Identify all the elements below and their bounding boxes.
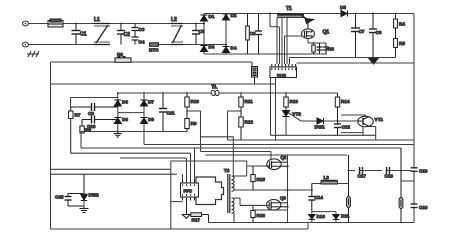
svg-text:Q1: Q1 — [323, 30, 330, 36]
diode D3 — [201, 46, 208, 52]
svg-text:C2: C2 — [124, 32, 131, 38]
svg-text:C16: C16 — [419, 205, 428, 210]
diode D2 — [223, 14, 230, 20]
resistor R17 — [187, 213, 209, 223]
svg-text:R10: R10 — [191, 99, 200, 104]
PWM controller IC1 — [270, 64, 297, 78]
lamp filament 1 — [347, 155, 351, 223]
resistor R4 — [394, 14, 398, 58]
wire IC2 pin2 drop — [186, 158, 188, 183]
Q1 gate wire — [285, 35, 303, 37]
zener DW2 — [81, 194, 87, 206]
wire (C17/C18 row) — [349, 170, 415, 172]
resistor R10 — [185, 93, 189, 119]
resistor R16 — [251, 205, 255, 222]
transformer T2 core — [228, 174, 230, 213]
band wire y136.8 — [201, 136, 234, 138]
inductor L3 — [321, 180, 338, 184]
bottom DC bus — [204, 53, 327, 55]
VT1 wires — [338, 115, 376, 140]
half-bridge rail — [287, 155, 289, 223]
top DC bus — [204, 13, 414, 15]
T2 secondary 2 — [232, 198, 235, 213]
svg-text:3842: 3842 — [277, 73, 287, 78]
diode D1 — [201, 15, 208, 21]
svg-text:C9: C9 — [88, 111, 94, 116]
band wire y151.5 — [201, 151, 272, 153]
svg-text:C3: C3 — [139, 27, 145, 32]
resistor R11 — [239, 93, 243, 117]
MOSFET Q2 — [266, 159, 288, 170]
inner box wire — [71, 98, 118, 108]
diode D7 — [141, 100, 148, 106]
svg-text:NTC: NTC — [149, 48, 159, 53]
resistor R14 — [335, 93, 339, 124]
svg-text:R11: R11 — [245, 99, 254, 104]
svg-text:R3: R3 — [328, 47, 334, 52]
wire (R11/R12 tap) — [228, 111, 242, 140]
wire IC2 pin3 drop — [190, 153, 192, 183]
band wire y135.3 — [271, 134, 376, 136]
svg-text:L3: L3 — [324, 175, 330, 180]
resistor R6 — [115, 57, 131, 63]
left frame wire — [50, 62, 52, 229]
svg-text:C14: C14 — [315, 195, 324, 200]
band wire y158 — [120, 157, 187, 159]
svg-text:C6: C6 — [250, 31, 256, 36]
wire — [63, 23, 94, 25]
svg-text:R4: R4 — [399, 22, 405, 27]
svg-text:DW1: DW1 — [315, 125, 326, 130]
svg-text:Q2: Q2 — [281, 155, 287, 160]
svg-text:DW2: DW2 — [89, 193, 100, 198]
bus y131.5 — [81, 131, 187, 133]
bridge rectifier right leg — [225, 14, 227, 55]
chassis ground — [27, 51, 39, 57]
capacitor C7 — [351, 14, 360, 58]
capacitor (snubber) — [317, 43, 323, 54]
transistor VT1 — [358, 116, 374, 126]
capacitor C1 — [72, 24, 81, 45]
capacitor C12 — [334, 124, 341, 135]
transformer T1 — [277, 15, 304, 17]
capacitor C8 — [369, 14, 377, 58]
capacitor C9 — [71, 103, 118, 111]
capacitor C6 — [255, 14, 262, 55]
svg-text:C15: C15 — [55, 195, 64, 200]
wire (L3 to lamp1) — [338, 183, 349, 185]
capacitor C18 — [382, 167, 390, 174]
ground (IC2) — [182, 201, 192, 219]
svg-text:L1: L1 — [94, 17, 100, 23]
svg-text:C13: C13 — [419, 169, 428, 174]
driver IC2 (PFC) — [181, 180, 199, 201]
resistor R3 — [323, 43, 331, 54]
resistor R5 — [394, 39, 398, 48]
ground (diode block) — [114, 132, 122, 138]
wire (IC1 pin drops) — [271, 78, 276, 141]
svg-text:D6: D6 — [122, 100, 128, 105]
wire — [183, 44, 226, 46]
capacitor C16 — [411, 204, 418, 208]
wire y62 with R6 — [51, 61, 253, 63]
svg-text:C8: C8 — [376, 30, 382, 35]
svg-text:T2: T2 — [224, 168, 230, 173]
capacitor C13 — [411, 168, 418, 172]
diode column right — [143, 93, 145, 145]
capacitor C3 — [132, 24, 139, 37]
diode D10 — [309, 212, 315, 223]
ground (DW2) — [80, 206, 89, 213]
lamp filament 2 — [399, 148, 403, 223]
bottom frame wire — [51, 228, 309, 230]
svg-text:R7: R7 — [75, 113, 81, 118]
resistor R12 — [239, 117, 243, 140]
svg-text:R17: R17 — [192, 218, 201, 223]
svg-text:R5: R5 — [399, 41, 405, 46]
svg-text:C1: C1 — [80, 32, 87, 38]
svg-text:R8: R8 — [191, 121, 197, 126]
svg-text:L2: L2 — [171, 17, 177, 23]
svg-text:D3: D3 — [209, 45, 215, 50]
wire Q2 drain drop — [270, 152, 272, 160]
band wire y153.2 — [71, 152, 191, 154]
svg-text:C12: C12 — [342, 125, 351, 130]
wire (lamp2 to frame) — [401, 180, 414, 182]
wire VT2 to DW1 — [286, 113, 317, 136]
svg-text:VT1: VT1 — [375, 117, 384, 122]
svg-text:T1: T1 — [286, 6, 292, 12]
right frame wire — [413, 14, 415, 223]
svg-text:C11: C11 — [167, 111, 176, 116]
resistor R1 — [246, 14, 250, 55]
terminal L — [23, 21, 49, 26]
band wire y144.5 — [144, 144, 414, 146]
T1 polarity arrow — [301, 15, 314, 24]
lower box wires — [51, 161, 247, 229]
wire (diode mid row) — [118, 112, 144, 114]
fuse FU — [48, 19, 63, 27]
zener DW1 — [317, 118, 338, 124]
wire (sec row to L3) — [312, 183, 321, 185]
capacitor C4 — [132, 37, 139, 45]
diode D11 — [333, 212, 339, 223]
svg-text:PFC: PFC — [184, 189, 192, 194]
svg-text:D9: D9 — [148, 117, 154, 122]
capacitor C2 — [117, 24, 125, 45]
MOSFET Q3 — [240, 200, 288, 211]
aux winding T1b — [211, 88, 219, 95]
frame link — [307, 223, 309, 230]
NTC thermistor — [150, 43, 159, 47]
ground (C7/C8) — [369, 59, 378, 65]
resistor R7 — [69, 107, 73, 153]
svg-text:D8: D8 — [122, 117, 128, 122]
MOSFET Q1 — [302, 20, 315, 39]
svg-text:R12: R12 — [245, 120, 254, 125]
wire (aux return) — [290, 57, 396, 59]
wire (IC supply to right frame) — [297, 62, 415, 64]
svg-text:R6: R6 — [117, 52, 123, 57]
capacitor C14 — [308, 184, 315, 212]
diode D8 — [114, 118, 121, 124]
T2 wires — [234, 161, 312, 223]
capacitor C17 — [355, 167, 363, 174]
svg-text:D5: D5 — [340, 5, 346, 10]
svg-text:T1: T1 — [212, 84, 217, 89]
wire y174.5 — [51, 173, 178, 175]
terminal N — [23, 42, 95, 47]
capacitor C10 — [82, 116, 118, 124]
resistor R2 — [312, 43, 315, 54]
diode column left — [117, 93, 119, 132]
capacitor C15 — [65, 174, 85, 206]
svg-text:D7: D7 — [148, 100, 154, 105]
svg-text:R16: R16 — [257, 213, 266, 218]
svg-text:C18: C18 — [385, 174, 394, 179]
band wire y155 — [205, 154, 347, 156]
bridge rectifier left leg — [203, 14, 205, 55]
T2 secondary 1 — [232, 176, 235, 191]
resistor R15 — [251, 166, 255, 190]
resistor R13 — [284, 93, 288, 107]
svg-text:Q3: Q3 — [280, 196, 286, 201]
T1 primary staircase wire — [270, 14, 279, 27]
driver transformer primary loop — [196, 177, 224, 205]
svg-text:R14: R14 — [341, 99, 350, 104]
diode D5 — [341, 11, 348, 17]
aux rail y93 — [118, 92, 338, 94]
common mode choke L1 — [94, 24, 110, 45]
capacitor C11 — [159, 93, 167, 132]
wire — [159, 44, 172, 46]
svg-text:D1: D1 — [209, 14, 215, 19]
svg-text:C4: C4 — [139, 40, 145, 45]
diode D9 — [141, 118, 148, 124]
resistor R9 — [80, 120, 84, 134]
IC1 pin wire bundle — [277, 18, 290, 65]
common mode choke L2 — [171, 24, 183, 45]
Q1 source wire — [308, 38, 326, 43]
resistor R8 — [185, 119, 189, 132]
wire — [110, 23, 204, 25]
resistor RT (startup) — [252, 62, 258, 84]
diode D4 — [223, 47, 230, 53]
wire (D10/D11 row) — [312, 211, 336, 213]
svg-text:C17: C17 — [358, 174, 367, 179]
svg-text:R13: R13 — [290, 99, 299, 104]
band wire y148 — [81, 132, 401, 149]
IC1 pin numbers — [271, 68, 296, 70]
svg-text:D4: D4 — [231, 46, 237, 51]
svg-text:D10: D10 — [317, 214, 326, 219]
wire T2 gate drop — [232, 137, 234, 176]
wire IC2 pin4 drop — [194, 148, 196, 183]
bottom bus — [209, 222, 415, 224]
wire R16 top row — [253, 209, 288, 211]
band wire y140 — [228, 139, 415, 141]
wire (R10/R8 tap) — [187, 111, 201, 152]
thyristor VT2 — [283, 107, 290, 117]
svg-text:C7: C7 — [359, 29, 365, 34]
capacitor C5 — [192, 24, 200, 45]
wire y84 — [51, 83, 276, 85]
diode D6 — [114, 100, 121, 106]
svg-text:R15: R15 — [257, 177, 266, 182]
